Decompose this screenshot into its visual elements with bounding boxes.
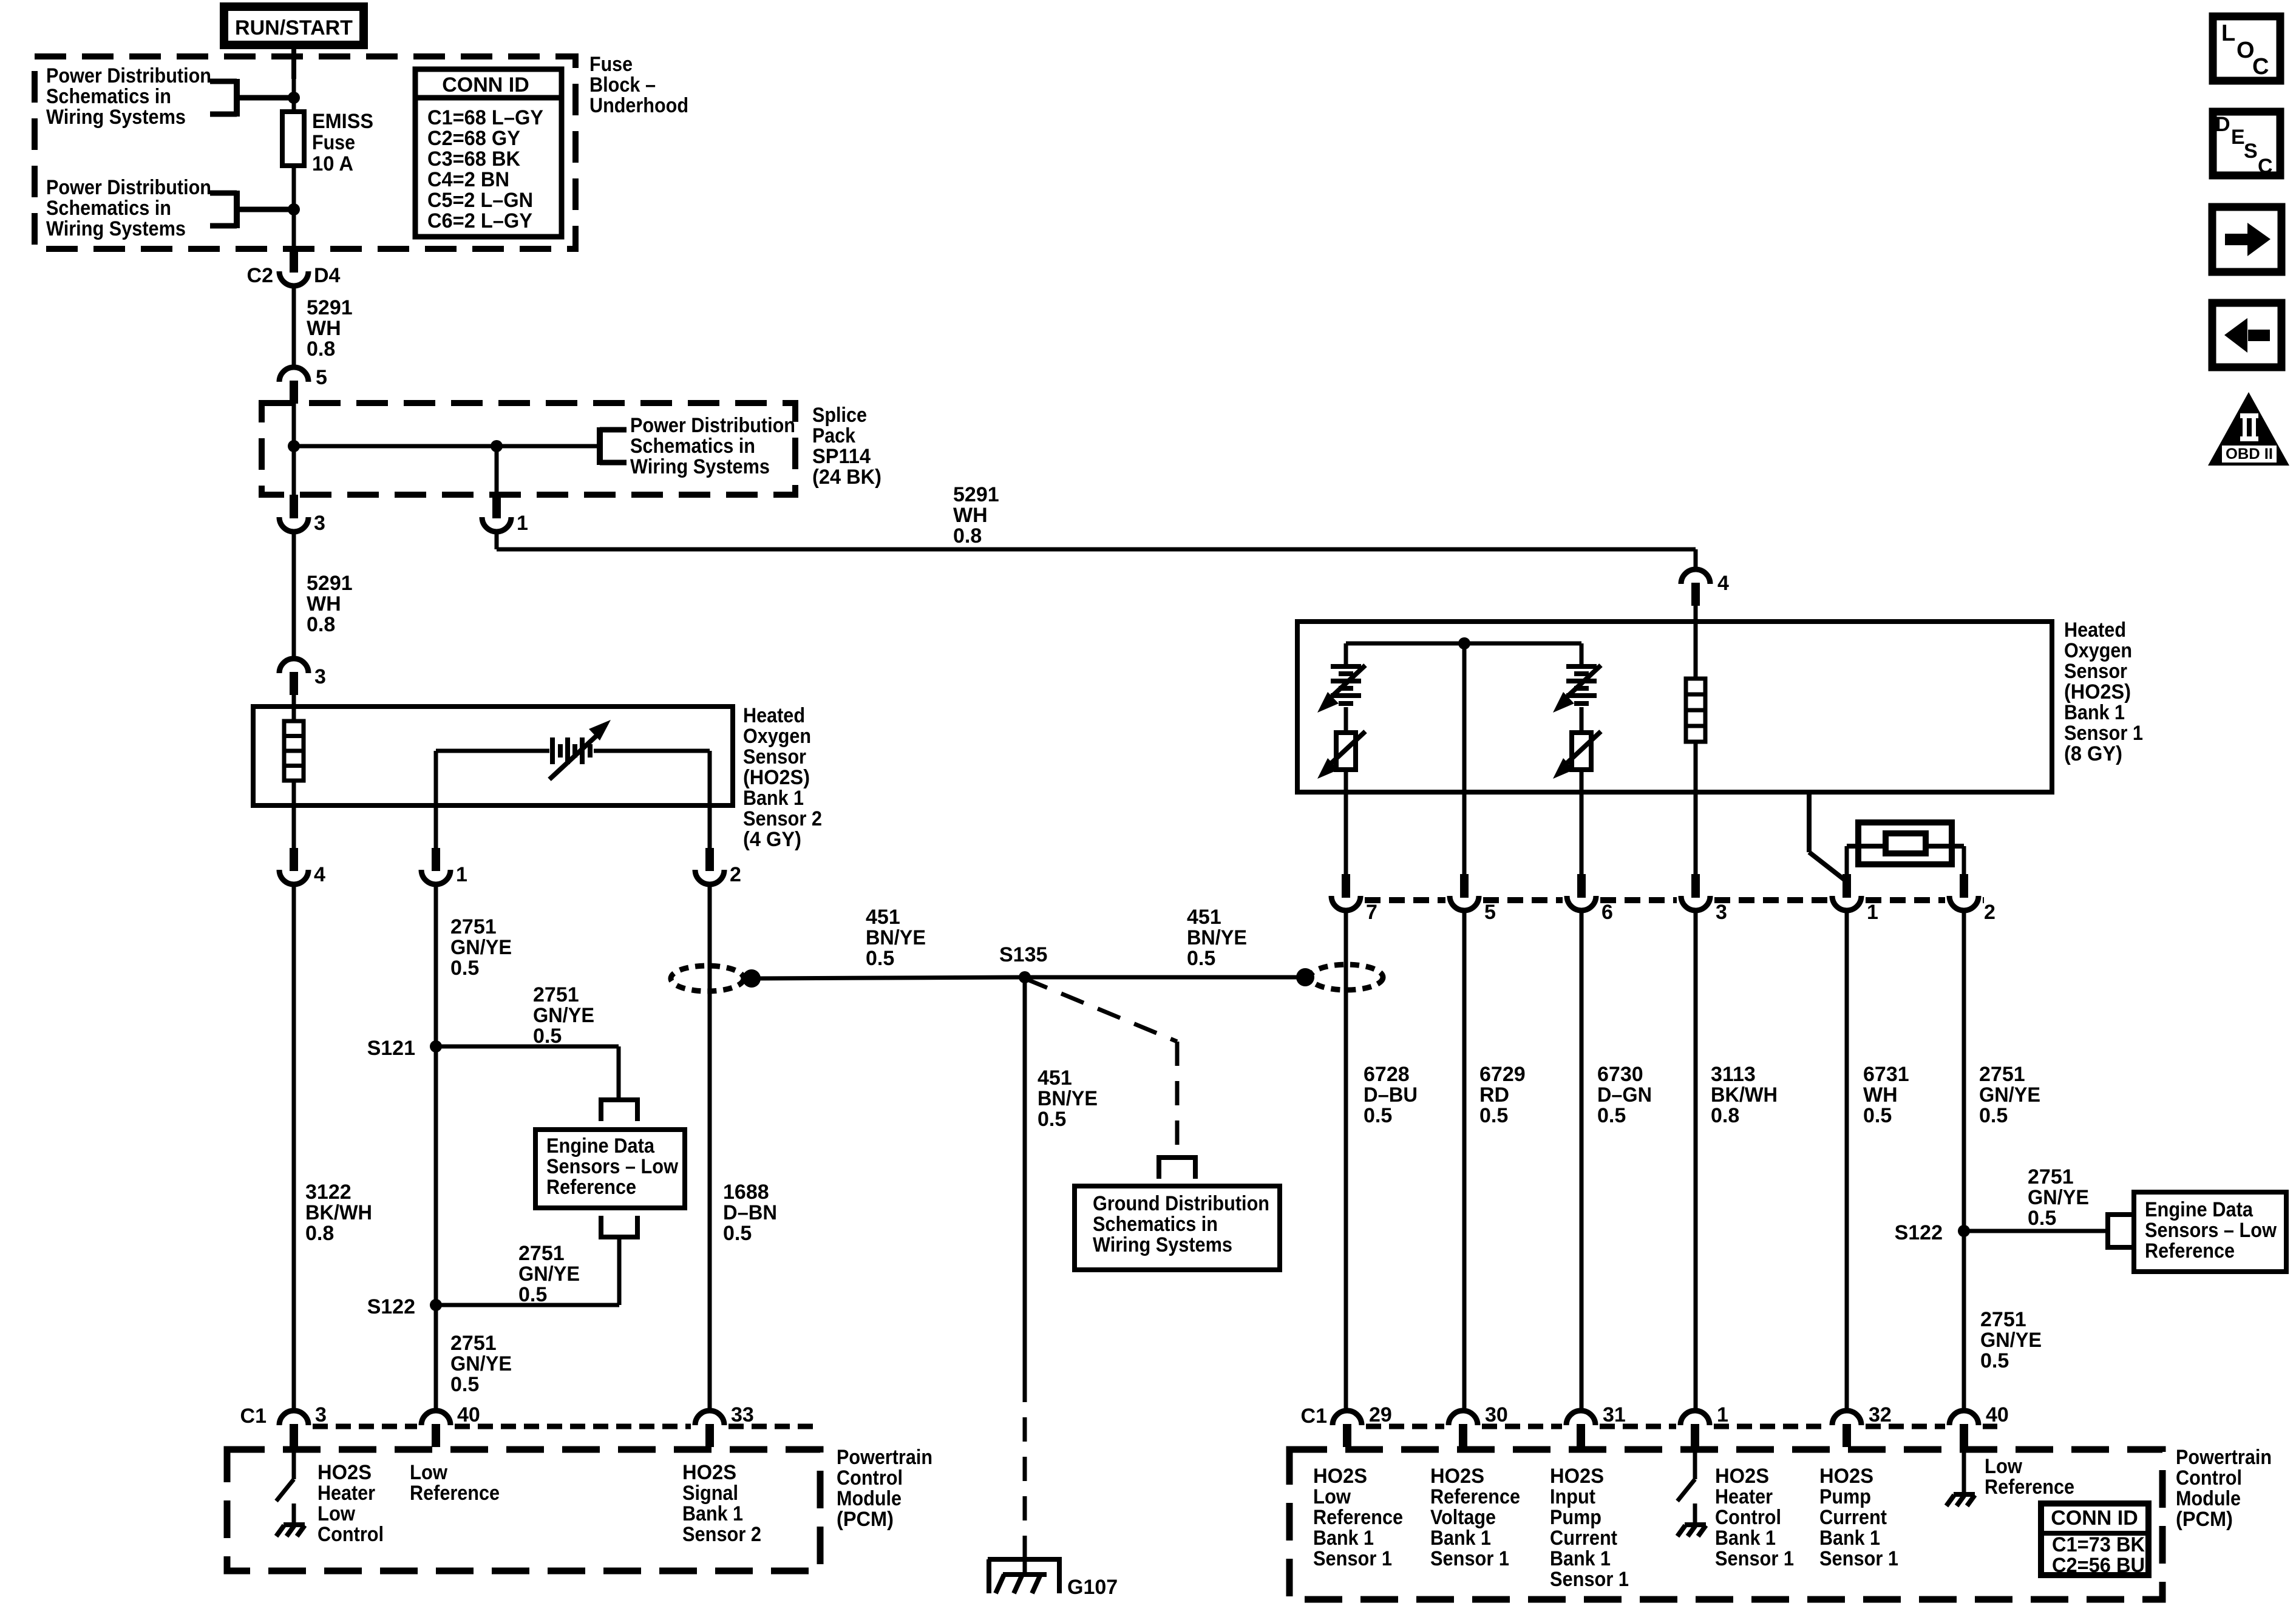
- variable resistor + arrow (right): [1553, 731, 1601, 779]
- svg-text:3: 3: [1716, 901, 1727, 924]
- svg-text:3: 3: [314, 512, 325, 535]
- wire 6728 D-BU (pin7 to pin29): [1344, 912, 1348, 1412]
- svg-text:C5=2 L–GN: C5=2 L–GN: [427, 189, 533, 212]
- svg-text:5: 5: [316, 366, 327, 389]
- svg-text:0.8: 0.8: [1711, 1104, 1739, 1127]
- svg-text:Reference: Reference: [2145, 1239, 2235, 1263]
- svg-text:0.5: 0.5: [1980, 1349, 2009, 1372]
- svg-text:(HO2S): (HO2S): [2064, 680, 2131, 703]
- ground (heater low control): [276, 1503, 305, 1536]
- label powertrain control module PCM (left): [837, 1446, 932, 1531]
- node - tap on pin2 wire: [742, 969, 761, 988]
- connector pin 5 (sensor1): [1450, 874, 1496, 924]
- label C1 (right): [1301, 1405, 1327, 1428]
- svg-text:Bank 1: Bank 1: [1819, 1527, 1880, 1550]
- svg-text:2751: 2751: [450, 1332, 497, 1355]
- svg-text:RD: RD: [1479, 1083, 1509, 1107]
- icon OBD II triangle: [2208, 392, 2289, 466]
- svg-text:WH: WH: [1863, 1083, 1898, 1107]
- svg-text:GN/YE: GN/YE: [533, 1004, 594, 1027]
- connector pin 4 (sensor2): [279, 848, 325, 886]
- connector pin 40 (PCM left): [421, 1403, 480, 1447]
- wire 2751 GN/YE (pin2 to pin40): [1962, 912, 1966, 1412]
- label 2751 GN/YE 0.5 (pin2): [1979, 1063, 2040, 1127]
- wire heater to pin3: [1694, 742, 1698, 877]
- wire 6729 RD (pin5 to pin30): [1462, 912, 1467, 1412]
- svg-text:HO2S: HO2S: [1313, 1465, 1367, 1488]
- label HO2S low reference bank1 sensor1: [1313, 1465, 1403, 1570]
- svg-text:Engine Data: Engine Data: [546, 1134, 655, 1158]
- svg-text:Schematics in: Schematics in: [630, 435, 755, 458]
- wire right branch to pin6: [1580, 770, 1584, 877]
- svg-text:5291: 5291: [307, 296, 353, 319]
- node sensor1 inner junction: [1458, 637, 1470, 649]
- svg-text:0.5: 0.5: [1038, 1108, 1066, 1131]
- svg-text:BN/YE: BN/YE: [866, 926, 926, 949]
- svg-text:Sensor 1: Sensor 1: [1819, 1547, 1898, 1570]
- svg-text:EMISS: EMISS: [312, 110, 373, 133]
- svg-text:E: E: [2231, 126, 2245, 149]
- svg-text:BN/YE: BN/YE: [1187, 926, 1247, 949]
- svg-text:HO2S: HO2S: [1715, 1465, 1769, 1488]
- svg-text:Heater: Heater: [318, 1482, 375, 1505]
- svg-text:2751: 2751: [450, 915, 497, 938]
- wire sensor1 output (bottom right): [1809, 792, 1845, 880]
- svg-text:0.5: 0.5: [1597, 1104, 1626, 1127]
- svg-text:BK/WH: BK/WH: [305, 1201, 372, 1224]
- svg-text:Low: Low: [410, 1461, 448, 1484]
- svg-text:C2=56 BU: C2=56 BU: [2052, 1554, 2145, 1577]
- label low reference (PCM left): [410, 1461, 500, 1505]
- label 5291 WH 0.8 (2): [307, 572, 353, 636]
- PCM C1 dashed line (left): [313, 1424, 813, 1429]
- svg-text:C3=68 BK: C3=68 BK: [427, 147, 520, 171]
- svg-text:Sensors – Low: Sensors – Low: [546, 1155, 678, 1178]
- svg-text:Power Distribution: Power Distribution: [630, 414, 795, 437]
- svg-text:C2=68 GY: C2=68 GY: [427, 127, 520, 150]
- svg-text:0.5: 0.5: [518, 1283, 547, 1306]
- receptacle to engine data sensors (top): [599, 1100, 640, 1121]
- node S122 (right): [1895, 1221, 1970, 1244]
- svg-text:1: 1: [517, 512, 528, 535]
- wire right branch mid: [1580, 707, 1584, 733]
- label 5291 WH 0.8 (bus): [953, 483, 999, 547]
- svg-text:BN/YE: BN/YE: [1038, 1087, 1098, 1110]
- svg-text:Schematics in: Schematics in: [46, 85, 171, 108]
- svg-text:HO2S: HO2S: [1550, 1465, 1604, 1488]
- wire S135 down to G107 (solid part): [1023, 977, 1027, 1378]
- svg-text:0.8: 0.8: [307, 613, 335, 636]
- svg-text:0.5: 0.5: [1479, 1104, 1508, 1127]
- connector pin 2 (sensor2): [695, 848, 741, 886]
- svg-text:Sensor 1: Sensor 1: [1550, 1568, 1629, 1591]
- svg-text:Powertrain: Powertrain: [2176, 1446, 2272, 1469]
- node SP114 right junction: [491, 440, 503, 452]
- svg-text:31: 31: [1603, 1403, 1626, 1426]
- svg-text:0.5: 0.5: [1187, 947, 1215, 970]
- wire - junction to fuse: [292, 79, 296, 209]
- connector 5 (splice pack): [279, 366, 327, 404]
- svg-text:Control: Control: [318, 1523, 384, 1546]
- ground distribution box: [1075, 1186, 1280, 1270]
- label 2751 GN/YE 0.5 (S121 branch): [533, 983, 594, 1048]
- svg-text:WH: WH: [307, 592, 341, 615]
- splice pack SP114 dashed box: [262, 403, 795, 495]
- svg-text:Signal: Signal: [682, 1482, 738, 1505]
- svg-text:Schematics in: Schematics in: [46, 197, 171, 220]
- svg-text:Splice: Splice: [812, 404, 867, 427]
- label 6731 WH 0.5: [1863, 1063, 1909, 1127]
- svg-text:D: D: [2215, 113, 2230, 136]
- svg-text:HO2S: HO2S: [1819, 1465, 1873, 1488]
- svg-text:GN/YE: GN/YE: [450, 1352, 512, 1375]
- svg-text:Fuse: Fuse: [589, 53, 633, 76]
- svg-text:(PCM): (PCM): [837, 1508, 894, 1531]
- label 3122 BK/WH 0.8: [305, 1181, 372, 1245]
- svg-text:(24 BK): (24 BK): [812, 466, 881, 489]
- node S135: [999, 943, 1047, 983]
- node S122: [367, 1295, 442, 1318]
- label 451 BN/YE 0.5 (right): [1187, 906, 1247, 970]
- wire 1688 D-BN (pin2 to PCM pin33): [708, 884, 712, 1412]
- svg-text:Reference: Reference: [1313, 1506, 1403, 1529]
- wire connector4 into sensor1 box: [1694, 605, 1698, 679]
- svg-text:0.5: 0.5: [866, 947, 894, 970]
- svg-text:Wiring Systems: Wiring Systems: [46, 217, 186, 240]
- svg-text:WH: WH: [307, 317, 341, 340]
- wire pin40 to low reference ground: [1962, 1446, 1966, 1492]
- svg-text:Bank 1: Bank 1: [1715, 1527, 1776, 1550]
- svg-text:GN/YE: GN/YE: [450, 936, 512, 959]
- wire - splice bus: [294, 444, 597, 449]
- HO2S bank1 sensor1 box: [1297, 622, 2052, 792]
- wire left branch top: [1344, 643, 1348, 666]
- wire 3122 BK/WH (pin4 to PCM pin3): [292, 884, 296, 1412]
- svg-text:Schematics in: Schematics in: [1093, 1213, 1218, 1236]
- svg-text:Bank 1: Bank 1: [682, 1502, 743, 1525]
- wire right branch top: [1580, 643, 1584, 666]
- wire into sensor2 box: [292, 672, 296, 722]
- wire left branch mid: [1344, 707, 1348, 733]
- wire 3113 BK/WH (pin3 to pin1): [1694, 912, 1698, 1412]
- label 3113 BK/WH 0.8: [1711, 1063, 1778, 1127]
- svg-text:S122: S122: [367, 1295, 415, 1318]
- svg-text:3113: 3113: [1711, 1063, 1756, 1086]
- svg-text:OBD II: OBD II: [2226, 446, 2273, 463]
- svg-text:6731: 6731: [1863, 1063, 1909, 1086]
- svg-text:0.5: 0.5: [450, 957, 479, 980]
- ground (heater control): [1677, 1503, 1706, 1536]
- sensor element wires (sensor2): [436, 751, 710, 849]
- conn id table (PCM): [2041, 1503, 2148, 1577]
- label 1688 D-BN 0.5: [723, 1181, 777, 1245]
- svg-text:RUN/START: RUN/START: [235, 16, 353, 39]
- svg-text:D–GN: D–GN: [1597, 1083, 1652, 1107]
- svg-text:Oxygen: Oxygen: [743, 725, 811, 748]
- label HO2S heater low control: [318, 1461, 384, 1546]
- label HO2S reference voltage bank1 sensor1: [1430, 1465, 1520, 1570]
- icon arrow right: [2212, 207, 2281, 272]
- wire - RUN/START to fuse block: [291, 49, 296, 79]
- connector pin 3 (PCM left): [279, 1403, 327, 1447]
- label heated oxygen sensor bank1 sensor2: [743, 704, 822, 851]
- label 451 BN/YE 0.5 (S135 down): [1038, 1066, 1098, 1131]
- svg-text:SP114: SP114: [812, 445, 871, 468]
- svg-text:D–BU: D–BU: [1364, 1083, 1418, 1107]
- wire 6730 D-GN (pin6 to pin31): [1580, 912, 1584, 1412]
- svg-text:(PCM): (PCM): [2176, 1508, 2233, 1531]
- node S121: [367, 1037, 442, 1060]
- svg-text:1688: 1688: [723, 1181, 769, 1204]
- PCM right dashed box: [1289, 1449, 2162, 1599]
- icon DESC: [2213, 112, 2280, 178]
- connector pin 32 (PCM right): [1832, 1403, 1892, 1447]
- svg-text:2751: 2751: [518, 1242, 565, 1265]
- svg-text:32: 32: [1869, 1403, 1892, 1426]
- svg-text:Module: Module: [837, 1487, 902, 1510]
- ground (low reference): [1946, 1494, 1975, 1506]
- svg-text:Low: Low: [1985, 1455, 2023, 1478]
- label 6728 D-BU 0.5: [1364, 1063, 1418, 1127]
- svg-text:(4 GY): (4 GY): [743, 828, 801, 851]
- fuse block underhood dashed box: [35, 56, 576, 249]
- svg-text:2: 2: [730, 863, 741, 886]
- wire 2751 GN/YE (pin1 down): [434, 884, 438, 1412]
- svg-text:6729: 6729: [1479, 1063, 1526, 1086]
- svg-text:Heated: Heated: [2064, 619, 2126, 642]
- wire 5291 WH to sensor2: [292, 534, 296, 660]
- label 2751 GN/YE 0.5 (below S122 right): [1980, 1308, 2042, 1372]
- svg-text:Control: Control: [837, 1466, 903, 1490]
- svg-text:Powertrain: Powertrain: [837, 1446, 932, 1469]
- label 2751 GN/YE 0.5 (pin1): [450, 915, 512, 980]
- connector pin 2 (sensor1): [1949, 874, 1995, 924]
- svg-text:Sensor: Sensor: [743, 745, 806, 768]
- label HO2S heater control bank1 sensor1: [1715, 1465, 1794, 1570]
- svg-text:5291: 5291: [307, 572, 353, 595]
- label 5291 WH 0.8: [307, 296, 353, 361]
- variable resistor + arrow (left): [1317, 731, 1365, 779]
- label HO2S input pump current bank1 sensor1: [1550, 1465, 1629, 1591]
- svg-text:Engine Data: Engine Data: [2145, 1198, 2254, 1221]
- connector pin 7 (sensor1): [1331, 874, 1377, 924]
- svg-text:HO2S: HO2S: [1430, 1465, 1484, 1488]
- svg-text:4: 4: [314, 863, 325, 886]
- svg-text:Underhood: Underhood: [589, 94, 688, 117]
- svg-text:Low: Low: [1313, 1485, 1351, 1508]
- svg-text:CONN ID: CONN ID: [2051, 1507, 2138, 1530]
- connector pin 3 (sensor1): [1681, 874, 1727, 924]
- svg-text:C1: C1: [240, 1405, 267, 1428]
- svg-text:D–BN: D–BN: [723, 1201, 777, 1224]
- ground G107: [988, 1559, 1118, 1599]
- svg-text:2751: 2751: [2028, 1165, 2074, 1188]
- label low reference (PCM right): [1985, 1455, 2074, 1499]
- svg-text:2: 2: [1984, 901, 1995, 924]
- svg-text:C: C: [2252, 54, 2269, 80]
- wire S135 down dashed: [1023, 1378, 1027, 1557]
- svg-text:GN/YE: GN/YE: [2028, 1186, 2089, 1209]
- sensor element battery+arrow (left): [1317, 665, 1365, 713]
- svg-text:Sensor: Sensor: [2064, 660, 2127, 683]
- svg-text:C4=2 BN: C4=2 BN: [427, 168, 509, 191]
- label 2751 GN/YE 0.5 (to S122): [518, 1242, 580, 1306]
- svg-text:Bank 1: Bank 1: [2064, 701, 2125, 724]
- sensor element battery+arrow (right): [1553, 665, 1601, 713]
- svg-text:C1=68 L–GY: C1=68 L–GY: [427, 106, 543, 129]
- wire - connector1 to long bus: [497, 534, 1696, 549]
- svg-text:29: 29: [1369, 1403, 1392, 1426]
- label heated oxygen sensor bank1 sensor1: [2064, 619, 2143, 765]
- wire S121 branch: [436, 1046, 619, 1097]
- svg-text:Pump: Pump: [1819, 1485, 1871, 1508]
- svg-text:BK/WH: BK/WH: [1711, 1083, 1778, 1107]
- switch - HO2S heater low control: [276, 1446, 294, 1501]
- connector pin 6 (sensor1): [1567, 874, 1613, 924]
- connector pin 1 (PCM right): [1680, 1403, 1728, 1447]
- label 6729 RD 0.5: [1479, 1063, 1526, 1127]
- icon LOC: [2213, 16, 2280, 81]
- svg-text:1: 1: [1717, 1403, 1728, 1426]
- svg-text:0.5: 0.5: [1364, 1104, 1392, 1127]
- svg-text:S121: S121: [367, 1037, 415, 1060]
- svg-text:Power Distribution: Power Distribution: [46, 64, 211, 87]
- svg-text:Reference: Reference: [1985, 1476, 2074, 1499]
- svg-text:Sensor 2: Sensor 2: [682, 1523, 761, 1546]
- sensor1 inner bus: [1346, 642, 1581, 646]
- connector pin 40 (PCM right): [1949, 1403, 2009, 1447]
- svg-text:D4: D4: [314, 264, 341, 287]
- label 451 BN/YE 0.5 (left): [866, 906, 926, 970]
- svg-text:S122: S122: [1895, 1221, 1943, 1244]
- connector pin 33 (PCM left): [695, 1403, 754, 1447]
- wire inside splice pack: [292, 402, 296, 495]
- svg-text:0.5: 0.5: [1979, 1104, 2008, 1127]
- svg-text:C6=2 L–GY: C6=2 L–GY: [427, 209, 532, 232]
- receptacle to ground distribution: [1156, 1158, 1198, 1179]
- svg-text:6: 6: [1601, 901, 1613, 924]
- svg-text:Fuse: Fuse: [312, 131, 355, 154]
- svg-text:Sensor 1: Sensor 1: [1313, 1547, 1392, 1570]
- svg-text:Control: Control: [1715, 1506, 1781, 1529]
- svg-text:6728: 6728: [1364, 1063, 1410, 1086]
- svg-text:Ground Distribution: Ground Distribution: [1093, 1192, 1269, 1215]
- svg-text:Bank 1: Bank 1: [1313, 1527, 1374, 1550]
- wire left branch to pin7: [1344, 770, 1348, 877]
- connector 4 (sensor1 inlet): [1681, 569, 1729, 606]
- svg-text:0.8: 0.8: [307, 337, 335, 361]
- off-page ref: power distribution (top): [46, 64, 294, 129]
- svg-text:Module: Module: [2176, 1487, 2241, 1510]
- svg-text:1: 1: [456, 863, 467, 886]
- fuse EMISS 10A: [282, 110, 373, 175]
- svg-text:2751: 2751: [1979, 1063, 2025, 1086]
- svg-text:Heated: Heated: [743, 704, 805, 727]
- receptacle to engine data sensors (right): [2108, 1212, 2133, 1250]
- svg-text:C2: C2: [247, 264, 273, 287]
- svg-text:0.5: 0.5: [2028, 1207, 2056, 1230]
- svg-text:451: 451: [1038, 1066, 1072, 1090]
- engine data sensors low reference box (left): [535, 1130, 685, 1208]
- svg-text:Wiring Systems: Wiring Systems: [1093, 1233, 1232, 1256]
- svg-text:30: 30: [1485, 1403, 1508, 1426]
- off-page ref: power distribution (splice): [600, 414, 795, 478]
- svg-text:Bank 1: Bank 1: [1430, 1527, 1491, 1550]
- svg-text:GN/YE: GN/YE: [518, 1263, 580, 1286]
- svg-text:HO2S: HO2S: [318, 1461, 372, 1484]
- svg-text:G107: G107: [1067, 1576, 1118, 1599]
- svg-text:3: 3: [314, 665, 326, 688]
- ignition voltage tag RUN/START: [224, 7, 364, 45]
- svg-text:Reference: Reference: [546, 1176, 636, 1199]
- wire S122 to engine data (right): [1964, 1229, 2105, 1233]
- svg-text:Voltage: Voltage: [1430, 1506, 1496, 1529]
- switch - HO2S heater control: [1677, 1446, 1695, 1501]
- svg-text:Wiring Systems: Wiring Systems: [630, 455, 770, 478]
- connector C2 pin D4: [247, 249, 341, 287]
- svg-text:CONN ID: CONN ID: [442, 73, 529, 97]
- svg-text:C1: C1: [1301, 1405, 1327, 1428]
- svg-text:Oxygen: Oxygen: [2064, 639, 2132, 662]
- sensor1 connector dashed line: [1365, 897, 1984, 903]
- label powertrain control module PCM (right): [2176, 1446, 2272, 1531]
- svg-text:4: 4: [1717, 572, 1729, 595]
- svg-text:WH: WH: [953, 504, 988, 527]
- svg-text:S: S: [2244, 140, 2258, 163]
- dashed branch S135 to ground distribution: [1025, 978, 1177, 1155]
- svg-text:Bank 1: Bank 1: [743, 787, 804, 810]
- svg-text:3: 3: [315, 1403, 327, 1426]
- wire inner junction to pin5: [1462, 643, 1467, 877]
- svg-text:GN/YE: GN/YE: [1980, 1329, 2042, 1352]
- svg-text:Current: Current: [1819, 1506, 1887, 1529]
- svg-text:(HO2S): (HO2S): [743, 766, 810, 789]
- heater element (sensor2): [284, 721, 304, 781]
- svg-text:Sensor 2: Sensor 2: [743, 807, 822, 830]
- svg-text:Sensors – Low: Sensors – Low: [2145, 1219, 2277, 1242]
- svg-text:0.5: 0.5: [533, 1025, 562, 1048]
- svg-text:Power Distribution: Power Distribution: [46, 176, 211, 199]
- svg-text:Pack: Pack: [812, 424, 855, 447]
- HO2S bank1 sensor2 box: [253, 707, 733, 805]
- wire - fuse to connector C2 D4: [292, 209, 296, 251]
- svg-text:Pump: Pump: [1550, 1506, 1601, 1529]
- PCM C1 dashed line (right): [1366, 1424, 1997, 1429]
- svg-text:40: 40: [1986, 1403, 2009, 1426]
- conn id table (fuse block): [415, 69, 562, 237]
- svg-text:Reference: Reference: [1430, 1485, 1520, 1508]
- svg-text:HO2S: HO2S: [682, 1461, 736, 1484]
- svg-text:3122: 3122: [305, 1181, 352, 1204]
- svg-text:Heater: Heater: [1715, 1485, 1773, 1508]
- connector pin 29 (PCM right): [1333, 1403, 1392, 1447]
- PCM left dashed box: [227, 1449, 820, 1571]
- svg-text:Low: Low: [318, 1502, 356, 1525]
- wire from engine data to S122: [436, 1239, 619, 1305]
- icon arrow left: [2212, 303, 2281, 367]
- receptacle from engine data sensors (bottom): [599, 1216, 640, 1237]
- node - tap on pin7 wire: [1296, 968, 1314, 986]
- svg-text:1: 1: [1867, 901, 1878, 924]
- wire bus down to connector 4: [1694, 549, 1698, 569]
- svg-text:5291: 5291: [953, 483, 999, 506]
- svg-text:Sensor 1: Sensor 1: [1430, 1547, 1509, 1570]
- svg-text:2751: 2751: [1980, 1308, 2026, 1331]
- svg-text:40: 40: [457, 1403, 480, 1426]
- engine data sensors low reference box (right): [2134, 1192, 2286, 1272]
- label HO2S signal bank1 sensor2: [682, 1461, 761, 1546]
- wire 5291 WH 0.8 (fuse to splice): [292, 285, 296, 368]
